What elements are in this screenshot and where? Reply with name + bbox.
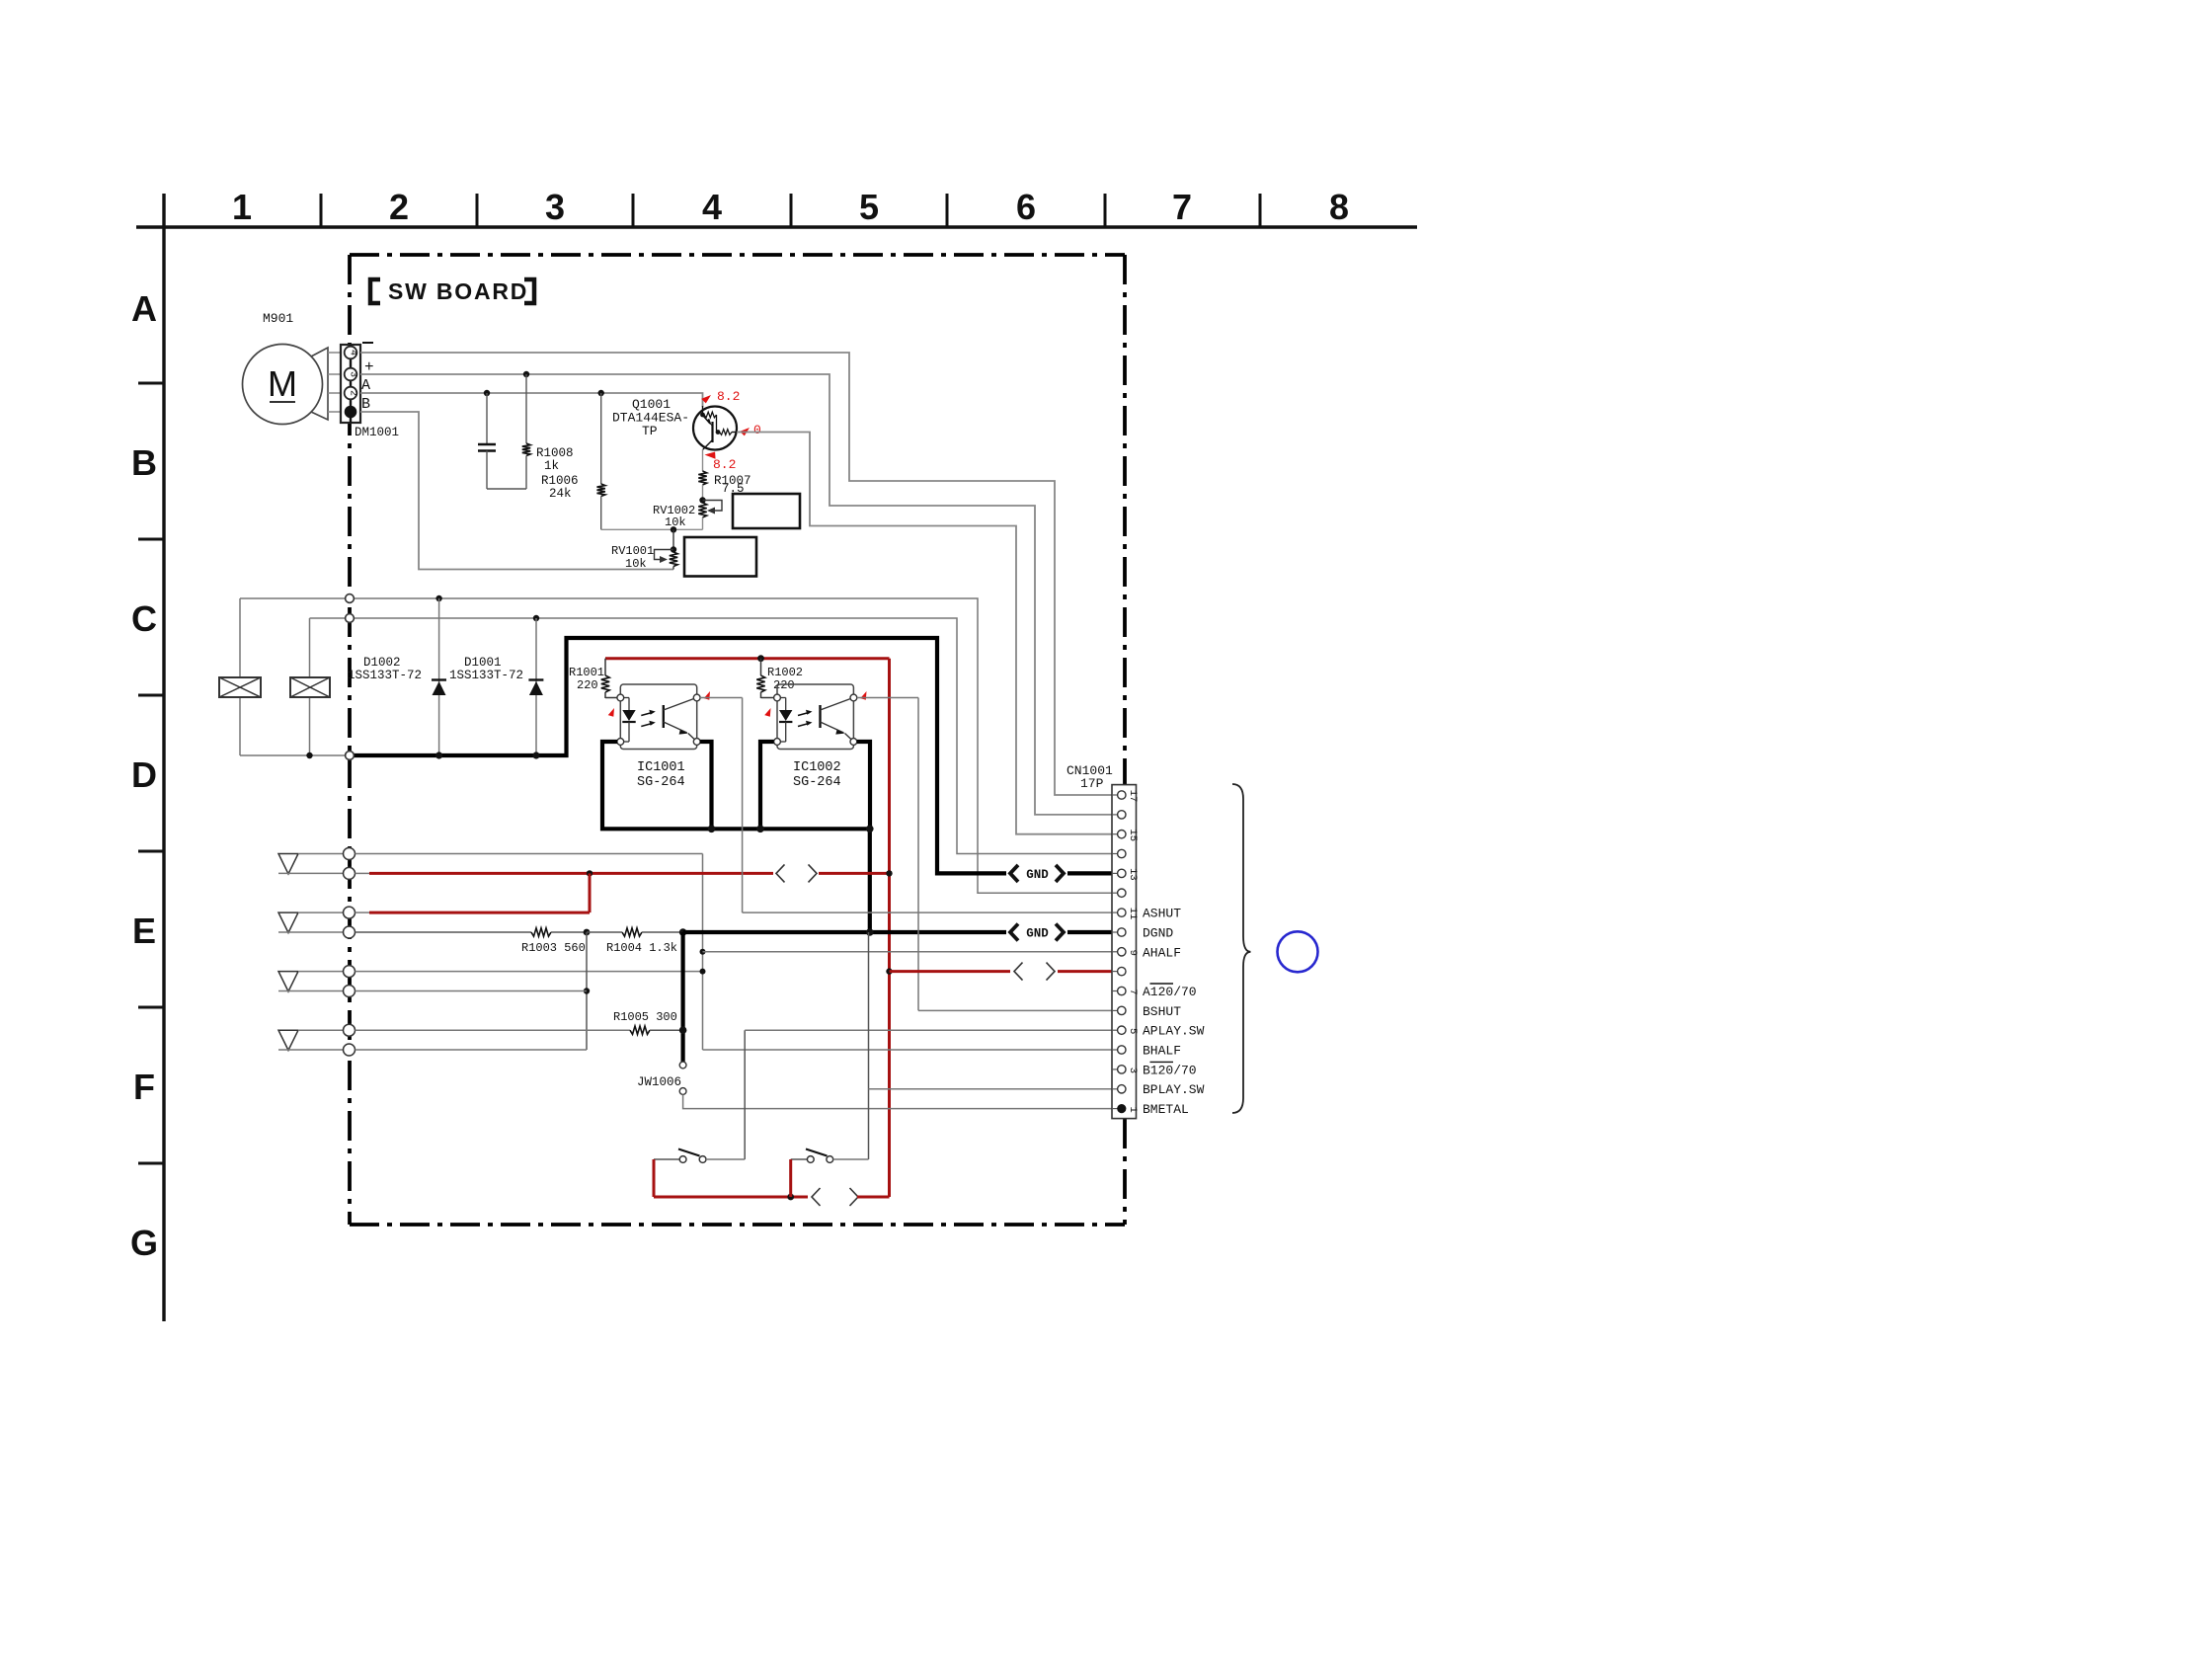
svg-text:2: 2 bbox=[348, 390, 358, 396]
svg-text:BSHUT: BSHUT bbox=[1143, 1004, 1181, 1019]
leaf switch group 2 bbox=[278, 907, 355, 938]
wire: JW1006 to CN pin1 BMETAL bbox=[683, 1094, 1112, 1108]
svg-text:1: 1 bbox=[1127, 1106, 1139, 1112]
svg-text:SG-264: SG-264 bbox=[793, 775, 841, 790]
play switch SW-A bbox=[654, 1149, 745, 1163]
wire: BHALF to CN pin4 bbox=[703, 1049, 1113, 1051]
transistor Q1001 DTA144ESA-TP bbox=[612, 397, 737, 471]
svg-text:TP: TP bbox=[642, 424, 658, 438]
svg-text:AHALF: AHALF bbox=[1143, 945, 1181, 960]
SW BOARD dash-dot border box bbox=[350, 255, 1125, 1225]
trimmer RV1002 10k bbox=[653, 497, 722, 529]
svg-text:7: 7 bbox=[1172, 187, 1192, 227]
svg-text:17P: 17P bbox=[1080, 776, 1104, 791]
diode D1002 1SS133T-72 bbox=[348, 598, 446, 755]
svg-text:3: 3 bbox=[348, 371, 358, 377]
svg-text:D: D bbox=[131, 754, 157, 795]
wire: Q1001 emitter (0V) to CN pin15 bbox=[737, 433, 1112, 834]
wire: IC1001 collector to ASHUT pin11 and down bbox=[700, 698, 1112, 913]
svg-text:220: 220 bbox=[577, 678, 598, 692]
connector CN1001 17P bbox=[1066, 763, 1139, 1119]
svg-text:B120/70: B120/70 bbox=[1143, 1063, 1197, 1077]
thick GND bus: diode rail to CN pin13 bbox=[354, 638, 1112, 873]
svg-text:RV1001: RV1001 bbox=[611, 544, 654, 558]
svg-text:3: 3 bbox=[1127, 1068, 1139, 1073]
C row: node line 1 to CN pin12 bbox=[240, 595, 1112, 893]
svg-text:13: 13 bbox=[1127, 868, 1139, 881]
red voltage marks on Q1001 bbox=[701, 389, 761, 472]
red jog wire row E second bbox=[355, 873, 591, 912]
resistor R1006 24k bbox=[541, 393, 605, 529]
red wire to CN pin8 with break arrows bbox=[886, 963, 1112, 981]
wire: RV1002 bottom to R1006 bottom bbox=[601, 526, 703, 532]
diode D1001 1SS133T-72 bbox=[449, 618, 543, 755]
wire: play switch A to APLAY.SW pin5 bbox=[745, 1030, 1112, 1159]
svg-text:10k: 10k bbox=[625, 557, 647, 571]
svg-text:G: G bbox=[130, 1223, 158, 1263]
motor M901 bbox=[243, 311, 342, 425]
svg-text:A: A bbox=[361, 377, 370, 394]
motor pin labels - + A B bbox=[362, 342, 373, 344]
wire: group1 line-a / group3 line-a common vertical to AHALF/BHALF bbox=[355, 854, 706, 1051]
GND flag (pin13) bbox=[1010, 865, 1018, 882]
wire: junction column x=594 (R1003/R1004 node) bbox=[355, 932, 591, 1050]
svg-text:1k: 1k bbox=[544, 459, 559, 473]
wire: motor plus to CN pin16 bbox=[360, 371, 1112, 815]
svg-text:SW BOARD: SW BOARD bbox=[388, 278, 528, 304]
svg-text:GND: GND bbox=[1026, 927, 1049, 941]
capacitor (A line filter) bbox=[478, 393, 526, 489]
red supply loop (row C/D) bbox=[605, 655, 890, 1197]
solenoid coil symbol (left) bbox=[219, 598, 261, 755]
leaf switch group 1 (record/play head A) bbox=[278, 848, 355, 880]
svg-text:15: 15 bbox=[1127, 829, 1139, 841]
svg-text:DM1001: DM1001 bbox=[355, 426, 399, 439]
svg-text:B: B bbox=[361, 396, 370, 413]
solenoid coil symbol (right) bbox=[290, 618, 330, 755]
resistor R1002 220 bbox=[756, 659, 803, 698]
wire: play switch B to BPLAY.SW pin2 bbox=[869, 932, 1113, 1159]
svg-text:R1002: R1002 bbox=[767, 666, 803, 679]
svg-text:1SS133T-72: 1SS133T-72 bbox=[348, 669, 422, 682]
svg-text:9: 9 bbox=[1127, 950, 1139, 956]
test point box (RV1001) bbox=[684, 537, 756, 577]
svg-text:E: E bbox=[132, 911, 156, 951]
DM1001 pin 1 (filled) bbox=[345, 406, 357, 419]
red bottom link wire with break arrows bbox=[654, 1159, 890, 1206]
svg-text:7: 7 bbox=[1127, 989, 1139, 994]
svg-text:6: 6 bbox=[1016, 187, 1036, 227]
svg-text:11: 11 bbox=[1127, 908, 1139, 920]
svg-text:A: A bbox=[131, 288, 157, 329]
svg-text:R1004 1.3k: R1004 1.3k bbox=[606, 941, 677, 955]
svg-text:B: B bbox=[131, 442, 157, 483]
trimmer RV1001 10k bbox=[611, 529, 677, 571]
wire: motor B line to RV1001 bottom bbox=[360, 412, 673, 570]
resistor R1005 300 bbox=[355, 1010, 683, 1034]
svg-text:2: 2 bbox=[389, 187, 409, 227]
wire: IC1002 collector to BSHUT pin6 bbox=[857, 698, 1112, 1011]
optocoupler IC1001 SG-264 bbox=[606, 684, 713, 790]
svg-text:M901: M901 bbox=[263, 311, 293, 326]
ruler: top scale numbers 1-8 bbox=[136, 187, 1417, 227]
svg-text:D1001: D1001 bbox=[464, 656, 502, 670]
board title [SW BOARD] bbox=[370, 278, 534, 304]
svg-text:BHALF: BHALF bbox=[1143, 1044, 1181, 1059]
svg-text:R1006: R1006 bbox=[541, 474, 579, 488]
leaf switch group 3 bbox=[278, 966, 355, 997]
svg-text:4: 4 bbox=[348, 350, 358, 356]
svg-text:BMETAL: BMETAL bbox=[1143, 1102, 1189, 1117]
resistor R1007 7.5 bbox=[698, 471, 750, 501]
svg-text:24k: 24k bbox=[549, 487, 572, 501]
resistor R1008 1k bbox=[522, 374, 574, 489]
svg-text:5: 5 bbox=[859, 187, 879, 227]
resistor R1001 220 bbox=[569, 659, 617, 698]
connector DM1001 bbox=[341, 343, 399, 439]
svg-text:ASHUT: ASHUT bbox=[1143, 907, 1181, 921]
wire: motor A line to Q1001 base bbox=[360, 390, 703, 407]
ruler: left scale letters A-G bbox=[130, 194, 164, 1321]
svg-text:IC1001: IC1001 bbox=[637, 760, 685, 775]
svg-text:3: 3 bbox=[545, 187, 565, 227]
leaf switch group 4 bbox=[278, 1024, 355, 1056]
resistor R1003 560 bbox=[355, 928, 588, 955]
svg-text:R1001: R1001 bbox=[569, 666, 604, 679]
CN1001 pin 1 (BMETAL, filled) bbox=[1117, 1104, 1126, 1113]
thick emitter bus of IC1001/IC1002 to DGND bbox=[602, 742, 874, 932]
svg-text:1SS133T-72: 1SS133T-72 bbox=[449, 669, 523, 682]
svg-text:R1005 300: R1005 300 bbox=[613, 1010, 677, 1024]
svg-text:DGND: DGND bbox=[1143, 926, 1173, 941]
svg-text:8.2: 8.2 bbox=[713, 457, 736, 472]
svg-text:APLAY.SW: APLAY.SW bbox=[1143, 1024, 1205, 1039]
svg-text:8: 8 bbox=[1329, 187, 1349, 227]
test point box (RV1002) bbox=[733, 494, 800, 528]
optocoupler IC1002 SG-264 bbox=[763, 684, 870, 790]
red sense wire (row E) to GND row pin13 bbox=[355, 864, 893, 882]
wire: AHALF to CN pin9 bbox=[703, 951, 1113, 953]
svg-text:R1003 560: R1003 560 bbox=[521, 941, 586, 955]
svg-text:BPLAY.SW: BPLAY.SW bbox=[1143, 1082, 1205, 1097]
svg-text:1: 1 bbox=[232, 187, 252, 227]
resistor R1004 1.3k bbox=[584, 928, 683, 955]
C row bottom return line bbox=[240, 752, 348, 758]
motor bracket bbox=[311, 348, 328, 420]
blue highlight circle bbox=[1278, 931, 1318, 972]
GND flag (pin10 DGND) bbox=[1010, 924, 1018, 941]
svg-text:R1008: R1008 bbox=[536, 446, 574, 460]
svg-text:8.2: 8.2 bbox=[717, 389, 740, 404]
svg-text:220: 220 bbox=[773, 678, 795, 692]
svg-text:IC1002: IC1002 bbox=[793, 760, 841, 775]
svg-text:4: 4 bbox=[702, 187, 722, 227]
svg-text:SG-264: SG-264 bbox=[637, 775, 685, 790]
svg-text:C: C bbox=[131, 598, 157, 639]
svg-text:17: 17 bbox=[1127, 790, 1139, 803]
play switch SW-B bbox=[791, 1149, 869, 1163]
svg-text:GND: GND bbox=[1026, 868, 1049, 882]
svg-text:0: 0 bbox=[753, 423, 761, 437]
svg-text:JW1006: JW1006 bbox=[637, 1075, 681, 1089]
border crossing terminals (C row) bbox=[346, 594, 355, 760]
wire: motor minus to CN pin17 bbox=[360, 353, 1112, 795]
svg-text:D1002: D1002 bbox=[363, 656, 401, 670]
svg-text:A120/70: A120/70 bbox=[1143, 985, 1197, 999]
svg-text:M: M bbox=[268, 363, 297, 404]
svg-text:5: 5 bbox=[1127, 1028, 1139, 1034]
jumper JW1006 bbox=[637, 932, 686, 1094]
svg-text:F: F bbox=[133, 1067, 155, 1107]
harness brace bbox=[1232, 784, 1251, 1113]
thick DGND segment to CN pin10 bbox=[679, 928, 1112, 936]
C row: node line 2 to CN pin14 bbox=[310, 615, 1113, 854]
CN1001 signal labels bbox=[1143, 907, 1205, 1118]
